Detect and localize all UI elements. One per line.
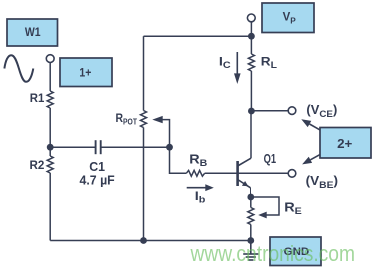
label C1: [89, 160, 105, 174]
label R1: [30, 92, 45, 105]
wiper arrow of RPOT: [152, 116, 169, 147]
svg-text:RPOT: RPOT: [116, 112, 138, 126]
label RB: [189, 152, 207, 169]
wire RE bottom lead: [250, 225, 252, 241]
terminal circle VP: [247, 14, 255, 22]
wire R1 to R2 junction: [49, 108, 51, 147]
svg-text:Q1: Q1: [264, 152, 276, 166]
wire base wire to VBE terminal: [205, 172, 289, 174]
arrow RE wiper: [258, 212, 267, 219]
svg-text:RB: RB: [189, 152, 207, 169]
box 1+: [60, 58, 112, 87]
svg-text:R1: R1: [30, 92, 45, 105]
svg-text:1+: 1+: [79, 67, 91, 80]
node wiper junction: [166, 144, 173, 151]
potentiometer RPOT: [141, 111, 147, 128]
wire RL top lead: [250, 36, 252, 54]
label VCE: [306, 102, 337, 120]
svg-text:W1: W1: [25, 26, 41, 39]
terminal circle VBE: [288, 170, 296, 178]
wire VCE terminal lead: [251, 110, 288, 112]
arrow IC current: [234, 52, 241, 84]
label VBE: [306, 174, 338, 191]
resistor RL: [248, 54, 254, 71]
node emitter junction: [247, 194, 254, 201]
label RPOT: [116, 112, 138, 126]
wire collector vertical: [250, 111, 252, 158]
svg-text:2+: 2+: [337, 136, 353, 151]
node bottom rail middle junction: [140, 237, 147, 244]
wire RE wiper loop: [251, 197, 279, 215]
wire left rail top lead: [49, 63, 51, 91]
capacitor C1: [96, 140, 101, 154]
label RL: [261, 54, 277, 71]
node collector / VCE junction: [248, 108, 255, 115]
svg-text:R2: R2: [30, 158, 45, 172]
box VP: [262, 3, 314, 33]
svg-text:IC: IC: [219, 54, 231, 70]
label 4.7uF: [79, 173, 115, 187]
svg-text:4.7 µF: 4.7 µF: [79, 173, 115, 187]
svg-text:RE: RE: [284, 200, 302, 216]
resistor RB: [186, 170, 204, 176]
wire RE top lead: [250, 197, 252, 208]
terminal circle VCE: [288, 107, 296, 115]
sine wave source symbol: [4, 55, 33, 82]
label Q1: [264, 152, 276, 166]
terminal circle W1 source: [46, 55, 54, 63]
label RE: [284, 200, 302, 216]
box 2+: [320, 128, 371, 159]
wire bottom rail: [50, 240, 251, 242]
label Ib: [195, 189, 206, 205]
resistor R2: [47, 147, 53, 173]
arrow from 2plus to VCE: [301, 119, 320, 130]
svg-text:www.cntronics.com: www.cntronics.com: [190, 241, 355, 266]
box GND: [270, 237, 321, 266]
transistor Q1: [238, 158, 251, 197]
svg-text:Ib: Ib: [195, 189, 206, 205]
node junction R1/R2/C1: [47, 144, 54, 151]
arrow Ib current: [187, 184, 214, 191]
label IC: [219, 54, 231, 70]
wire wiper junction to base wire corner: [170, 147, 187, 173]
wire RL bottom lead: [250, 71, 252, 111]
svg-text:(VBE): (VBE): [306, 174, 338, 191]
wire top rail: [144, 35, 252, 37]
wire middle vertical bottom: [143, 128, 145, 241]
label R2: [30, 158, 45, 172]
wire R2 to bottom rail: [49, 173, 51, 241]
wire VP terminal lead: [250, 22, 252, 36]
svg-text:RL: RL: [261, 54, 277, 71]
box W1: [7, 19, 58, 46]
ground: [243, 241, 258, 261]
wire middle vertical top: [143, 36, 145, 110]
node VP junction: [248, 33, 255, 40]
resistor R1: [47, 91, 53, 108]
resistor RE: [248, 208, 254, 225]
wire C1 right lead: [101, 146, 170, 148]
svg-text:C1: C1: [89, 160, 105, 174]
wire C1 left lead: [50, 146, 95, 148]
arrow from 2plus to VBE: [302, 154, 320, 164]
svg-text:(VCE): (VCE): [306, 102, 337, 120]
node bottom rail right junction: [247, 237, 254, 244]
